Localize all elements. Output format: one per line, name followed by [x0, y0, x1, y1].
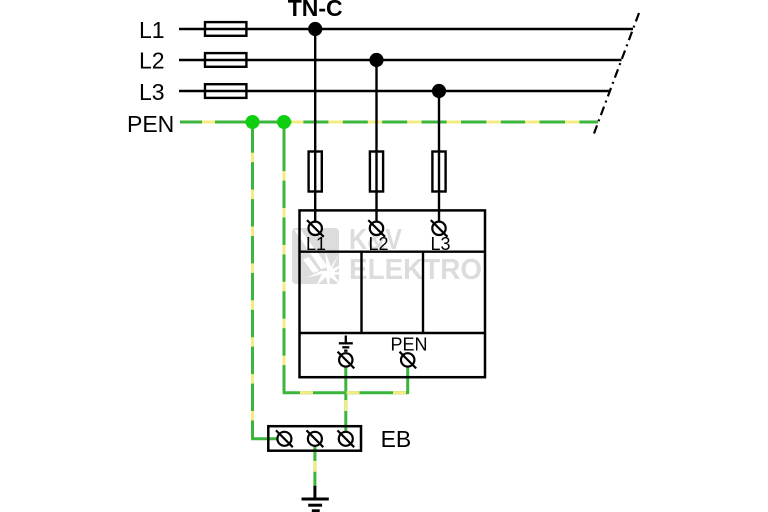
EB terminal 1: [276, 430, 293, 447]
svg-text:L2: L2: [369, 234, 389, 254]
yellow dashes on horizontal PE link: [300, 391, 406, 394]
wire L3 drop: [438, 91, 440, 152]
yellow dashes on PE drop 2: [283, 171, 286, 365]
fuse F2 (L2 line): [205, 53, 246, 67]
svg-text:PEN: PEN: [127, 111, 174, 137]
ground symbol: [302, 486, 329, 511]
svg-text:L1: L1: [306, 234, 326, 254]
SPD cell divider 1: [360, 252, 362, 333]
svg-text:L3: L3: [431, 234, 451, 254]
yellow dashes on PE drop 1: [251, 153, 254, 421]
fuse F3 (L3 line): [205, 84, 246, 98]
SPD box U1: [300, 210, 486, 377]
terminal L3: [431, 220, 448, 237]
yellow dashes on PEN bus: [202, 121, 579, 124]
boundary dash-dot diagonal: [594, 13, 639, 134]
yellow dash on earth terminal drop: [344, 400, 347, 411]
svg-text:TN-C: TN-C: [288, 0, 343, 21]
terminal L1: [307, 220, 324, 237]
wire PE drop from junction P1 down to EB bar: [251, 122, 278, 439]
junction dot on L3: [432, 84, 446, 98]
SPD divider top: [300, 250, 486, 252]
terminal L2: [368, 220, 385, 237]
watermark logo K&V square with lightning: [292, 228, 346, 290]
wire L2 line: [179, 59, 622, 61]
junction dot on L2: [369, 53, 383, 67]
junction dot P2 (green): [277, 115, 291, 129]
svg-text:L3: L3: [139, 79, 165, 105]
wire PE drop from junction P2 down, across, up to PEN terminal: [283, 122, 408, 394]
junction dot on L1: [308, 22, 322, 36]
svg-text:PEN: PEN: [391, 334, 428, 354]
wire L1 line: [179, 28, 633, 30]
fuse F4 (vertical, L1): [309, 152, 322, 222]
svg-text:ELEKTRO: ELEKTRO: [349, 254, 482, 286]
fuse F1 (L1 line): [205, 22, 246, 36]
SPD cell divider 2: [422, 252, 424, 333]
svg-text:EB: EB: [381, 426, 412, 452]
earth symbol inside SPD: [339, 336, 353, 351]
SPD divider bottom: [300, 332, 486, 334]
EB bar: [268, 426, 361, 451]
wire earth terminal to EB terminal 3: [344, 367, 347, 433]
EB terminal 3: [337, 430, 354, 447]
junction dot P1 (green): [246, 115, 260, 129]
wire L2 drop: [375, 60, 377, 152]
svg-text:L1: L1: [139, 17, 165, 43]
EB terminal 2: [307, 430, 324, 447]
terminal earth: [338, 352, 355, 369]
yellow dash on ground wire: [313, 461, 316, 472]
wire L1 drop: [314, 29, 316, 152]
wire L3 line: [179, 90, 610, 92]
wire PEN bus (green): [180, 121, 598, 124]
svg-text:L2: L2: [139, 48, 165, 74]
terminal PEN: [400, 352, 417, 369]
wire EB terminal 2 down to ground: [313, 446, 316, 487]
fuse F6 (vertical, L3): [432, 152, 445, 222]
fuse F5 (vertical, L2): [370, 152, 383, 222]
